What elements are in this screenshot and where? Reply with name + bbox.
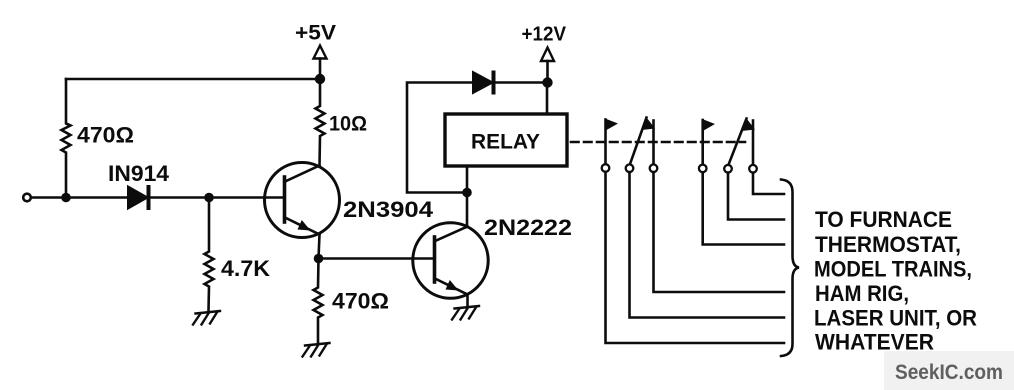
wire input to node A [31,196,66,199]
relay contact lever B2 [724,118,755,173]
wire Q1 emitter to node F [319,235,320,259]
diode D2 flyback [473,72,494,93]
svg-text:HAM RIG,: HAM RIG, [815,281,909,306]
wire contact B2 to load [728,173,784,220]
dashed mechanical link [571,141,745,144]
resistor R2 4.7K [205,202,214,311]
relay contact post B3 [749,121,757,173]
resistor R4 470 ohm [314,259,323,344]
wire D2 cathode to node E [495,81,548,84]
svg-text:+12V: +12V [522,24,567,46]
relay contact arm A1 [602,119,618,172]
wire contact A2 to load [630,172,785,317]
node E junction [542,77,552,87]
svg-text:+5V: +5V [295,22,336,45]
svg-text:2N2222: 2N2222 [484,215,572,240]
transistor Q1 2N3904 [265,163,340,238]
relay contact arm B1 [699,119,715,172]
svg-text:RELAY: RELAY [471,131,540,154]
ground under R2 [193,311,220,325]
relay contact lever A2 [626,117,655,173]
ground under R4 [303,343,330,357]
wire contact B3 to load [753,173,784,194]
power +5V arrow [314,46,327,76]
wire contact A3 to load [654,172,785,292]
power +12V arrow [541,48,554,79]
svg-text:IN914: IN914 [108,161,170,186]
node C junction [204,193,214,203]
ground under Q2 [452,306,479,320]
svg-text:LASER UNIT, OR: LASER UNIT, OR [814,306,977,331]
wire node A to diode D1 [66,196,128,199]
wire node C to Q1 base [209,196,284,199]
wire D1 to node C [150,196,209,199]
watermark SeekIC.com [884,351,1014,390]
node D junction [462,188,472,198]
relay K1 box [445,114,567,166]
svg-text:4.7K: 4.7K [221,256,270,281]
relay contact post A3 [650,121,658,173]
wire Q2 collector to node D [466,193,469,228]
wire relay coil bottom [466,166,469,193]
diode D1 1N914 [128,187,149,209]
resistor R1 470 ohm [62,79,71,198]
wire top rail [66,78,320,81]
svg-text:THERMOSTAT,: THERMOSTAT, [815,232,961,257]
annotation load list [814,207,977,355]
transistor Q2 2N2222 [413,223,488,298]
wire contact B1 to load [703,172,784,244]
svg-text:SeekIC.com: SeekIC.com [895,361,1003,384]
node A junction [61,193,71,203]
svg-text:470Ω: 470Ω [77,123,134,148]
input terminal [23,194,31,202]
svg-text:470Ω: 470Ω [332,289,389,314]
wire contact A1 to load [606,172,785,343]
resistor R3 10 ohm [316,83,325,166]
wire node F to Q2 base [319,257,435,260]
wire D2 anode loop to node D [407,83,473,193]
wire Q2 emitter down [466,295,469,307]
node F junction [314,254,324,264]
wire relay coil top [546,83,549,115]
svg-text:TO FURNACE: TO FURNACE [815,207,952,232]
svg-text:10Ω: 10Ω [329,113,367,136]
svg-text:2N3904: 2N3904 [343,197,434,222]
svg-text:MODEL TRAINS,: MODEL TRAINS, [814,257,972,282]
svg-text:WHATEVER: WHATEVER [815,330,934,355]
node B junction [315,74,325,84]
brace [781,180,799,357]
